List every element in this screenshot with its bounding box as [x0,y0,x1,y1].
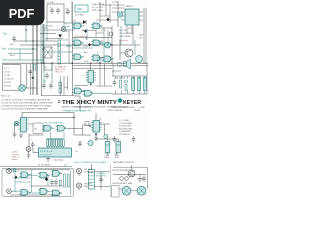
bottom right header [74,161,135,164]
net label Gnd [2,60,8,62]
gate U10C [51,190,63,196]
wire y174 right [113,174,146,176]
ground GND2 [13,134,17,137]
wire x43 dark [42,24,44,64]
label MUTE [66,45,72,48]
wire x37 dark [36,24,38,95]
jack circle mid [105,42,111,48]
svg-text:+1 100: +1 100 [4,75,11,77]
wire strip top [90,164,92,170]
wire y52 center [44,51,72,53]
wire x41 mid [41,62,43,96]
legend list right [119,120,133,136]
caps labels [104,157,120,159]
label teal above box [64,164,67,167]
capacitor C15 [50,179,54,186]
right row stubs top [116,76,145,79]
svg-text:U2: U2 [99,119,101,121]
label r small1 [73,21,77,23]
resistor bank bus [47,137,64,139]
label R6 [64,87,68,89]
wire y2 tr [112,1,118,3]
wire caps top [96,139,118,142]
wire x72 long [71,2,73,96]
wire y41 [14,40,57,42]
svg-text:R2 100K 1/4W: R2 100K 1/4W [119,128,132,130]
wire x26 [25,24,27,42]
wire y64 long [2,62,148,64]
box BT1 [33,123,43,134]
resistor R7 [34,65,36,71]
diode D5 below U8 [95,134,98,137]
note text top center [92,4,105,12]
net label Osc [3,34,8,36]
IC U6 left mid [18,118,28,133]
wire y135 [74,113,110,137]
svg-text:U1 14 PIN DIP: U1 14 PIN DIP [38,165,51,167]
diode D1 [83,20,86,24]
label col text [65,9,68,15]
wire x135 stub [134,40,136,55]
subtitle script teal [63,109,91,113]
gate U9B [38,172,50,178]
diode diamond a [84,29,87,33]
relay X box [44,47,52,58]
label pin8 [97,25,98,27]
wire gate outputs down [51,132,65,138]
ground GND1 [138,175,143,182]
capacitor C17 [29,69,33,76]
wire y96 right [75,96,80,111]
parts list heading [1,94,11,97]
wire x96 [95,29,97,38]
svg-text:+9: +9 [13,134,15,136]
bottom box wires row2 [11,191,38,193]
svg-text:1K lin pot: 1K lin pot [45,25,53,28]
svg-text:NOTE: ALL RESISTORS: NOTE: ALL RESISTORS [112,106,135,109]
wire x100 mid [96,64,113,86]
wire y118 mid [26,116,74,118]
bottom box wires row1 [11,171,38,175]
resistor R4 vertical [58,53,60,64]
label under c8 [75,151,78,153]
potentiometer R9 [61,27,66,32]
wire knobs [119,189,137,191]
resistor R22 [59,180,61,186]
svg-text:PARTS AND CONTROLS: PARTS AND CONTROLS [113,161,135,164]
bottom box bus mid [30,185,62,187]
bottom box wire y178 [12,177,31,179]
right component row bus bottom [112,93,147,95]
capacitor C16 [54,179,58,186]
capacitor C12 [31,142,35,149]
wire y27 right [131,25,133,34]
net label Vol [2,49,7,51]
resistor R21 [67,174,69,187]
svg-text:11: 11 [85,39,87,41]
jack circle top right [117,12,122,17]
jack input A [7,169,12,174]
resistor R3 vertical [58,40,60,51]
wire x146 top [145,8,147,64]
right text row [112,169,131,172]
label teal speed [66,26,70,28]
resistor R23 [14,169,16,172]
capacitor C6 [42,83,46,90]
bottom box vert x31 [31,170,33,192]
IC U5 top right [121,9,143,25]
svg-text:100uF: 100uF [104,157,110,159]
svg-text:TO +5 VDC: TO +5 VDC [92,7,104,9]
wire x64 stub [63,22,65,30]
red text mid [75,35,88,38]
label gate3 [74,37,76,40]
svg-text:dah in: dah in [10,55,15,57]
resistor R10 [113,80,117,87]
svg-text:C4 .05 IC2 555 R4 100K 1 KN: C4 .05 IC2 555 R4 100K 1 KNOB SET 1 WIRE… [1,109,49,111]
svg-text:board edge: board edge [54,160,63,162]
gate U7B [56,125,68,131]
capacitor C3 [66,9,70,16]
wire x44 [43,24,45,64]
svg-text:R1 10K: R1 10K [4,82,11,84]
knob K2 [137,186,146,195]
svg-text:OSC: OSC [77,8,82,11]
label left col2 [10,55,15,57]
wire x41 [40,24,42,64]
gate U1B [91,23,103,29]
label gate1 [82,30,87,32]
divider x110 [110,164,112,197]
connector J1 circle [19,85,26,92]
label gate2 [101,30,105,32]
wire q1 [120,40,125,60]
svg-text:C2 10uF TANT: C2 10uF TANT [119,122,133,125]
bottom box vert x15 [14,170,16,192]
wire y33 gates [99,27,112,29]
box R osc [44,63,52,70]
capacitor C2 [56,8,60,15]
wire y68 long [72,67,112,69]
label vol [65,31,68,33]
gate U4A [83,90,95,96]
svg-text:.01: .01 [75,151,78,153]
svg-text:C2 .05: C2 .05 [4,72,11,74]
wire y37 long [45,38,63,40]
svg-text:Q1 2N2222A: Q1 2N2222A [119,130,131,133]
wire y66 long [72,65,148,67]
svg-text:KEY OUT SIDETONE: KEY OUT SIDETONE [44,123,63,125]
wire y107 mid [74,106,91,108]
label U5 [126,6,133,8]
gate U2B [91,55,103,61]
wire y12 tr [112,11,118,13]
svg-text:device: device [12,159,17,161]
capacitor C19 [99,177,103,184]
svg-text:KEY UP: KEY UP [119,30,128,32]
wire x101 [100,172,102,191]
IC U8 right mid [91,121,102,133]
bottom box wire y182 [15,181,31,183]
subtitle right [108,110,141,112]
wire x67 mid [67,76,69,90]
wire y112 [22,113,74,118]
wire x20 short [19,49,21,60]
warning text red [55,67,67,74]
wire y95.5 [42,95,76,97]
label under bar [54,160,63,162]
resistor RN6 [58,139,60,146]
capacitor C18 [45,73,49,80]
label pot 1K [45,25,53,28]
wire x118 vertical [117,1,119,27]
right row stubs bottom [116,90,145,94]
wire y30 [44,29,96,32]
label 9V [13,134,15,136]
ground GND3 [19,134,23,138]
wire gates right [68,128,83,130]
svg-text:.1: .1 [30,140,32,142]
wire x60 mid [60,76,62,96]
wire x144 low [143,30,145,64]
wire x127 [126,25,128,34]
label pin11 [85,39,87,41]
svg-text:Tribute to the Altoids Tin: Tribute to the Altoids Tin [63,109,91,113]
diode under U3 [90,84,93,86]
junction dots [25,29,113,127]
wire u3 top [90,64,92,71]
ladder x100 [96,0,125,23]
gate U10A [19,190,31,196]
svg-text:.1 10K 1N4148: .1 10K 1N4148 [113,78,125,80]
svg-text:dah: dah [84,52,87,54]
gate U2C [102,56,114,62]
label gate4 [84,46,88,48]
title sub row [62,105,129,108]
parts list row4 [1,109,49,111]
wire y71 right [112,70,121,72]
wire x147 right edge [146,64,148,94]
label row vals [113,78,125,80]
circle S1b [125,177,129,181]
svg-text:3.579 MHz: 3.579 MHz [75,15,84,17]
trimmer VR1 [104,135,108,139]
svg-text:EDGE PINS: EDGE PINS [96,176,107,178]
gate U10B [38,189,50,195]
bottom box vert x70 [70,170,72,195]
transistor Q4 [128,170,135,177]
title star [118,98,123,103]
svg-text:PIN 7 GND: PIN 7 GND [92,10,103,12]
capacitor bank C22 [138,78,141,91]
svg-text:Spd: Spd [66,26,70,28]
svg-text:IC1c: IC1c [84,46,88,48]
wire y23 [64,22,83,24]
ground GND6 [27,155,31,158]
capacitor C4 [12,36,16,43]
diode diamond b [88,43,91,47]
bottom box bus bottom [10,194,60,196]
label U2 [99,119,101,121]
svg-text:4x: 4x [45,67,47,69]
gate U9C [51,171,63,177]
wire x112 [111,26,113,64]
gate U7A [42,125,54,131]
caps grounds [106,153,119,156]
right component row bus top [112,75,147,77]
diode D3 [45,177,48,181]
label top box [47,2,54,4]
wire x47 stub [46,22,48,41]
wire top box left [47,4,64,22]
svg-text:KD1JV: KD1JV [134,110,141,112]
resistor RN5 [56,139,58,146]
svg-text:.01 4.7K: .01 4.7K [61,40,69,42]
wire x133 [132,25,134,44]
resistor R11 [120,80,122,88]
svg-text:HOOK UP WIRING FOR OFF BOARD: HOOK UP WIRING FOR OFF BOARD [74,161,107,164]
gate U9A [19,172,31,178]
jack circle left of U6 [14,121,19,126]
resistor R12 [125,80,128,91]
svg-text:NE555: NE555 [126,6,133,8]
svg-text:PDF: PDF [9,6,35,21]
bottom box [2,168,74,196]
capacitor C11 electrolytic [116,142,121,153]
diamond D4 [106,18,109,22]
jack J4 [76,183,81,191]
transistor Q2 [136,56,143,63]
capacitor C9 teal [88,140,93,145]
wire y49 [8,48,37,50]
svg-text:C1 .1 DISC: C1 .1 DISC [119,120,130,122]
svg-text:X1 3.58: X1 3.58 [47,2,54,4]
wire x144 vertical [143,8,145,30]
wire strip right2 [94,186,110,188]
parts box [3,65,21,91]
capacitor C10 electrolytic [105,142,110,153]
wire to connector [33,148,39,153]
wire x113 mid edge [112,64,114,76]
parts box text [4,68,14,88]
note right top [112,106,145,109]
wire y61 [97,59,104,61]
resistor RN7 [60,139,62,146]
label strip [96,172,107,178]
wire x33 dark [32,24,34,95]
resistor RN3 [51,139,53,146]
svg-text:IC1b: IC1b [101,30,105,32]
small rect comp [32,77,34,79]
wire y51 [100,43,112,45]
gate U1D [91,40,103,46]
wire y48 gates [72,47,93,49]
svg-text:C2 10uF C6 .01 R2 2.2K 2 PH: C2 10uF C6 .01 R2 2.2K 2 PHONE JACK 1 SP… [1,102,53,105]
wire x121 stub [120,26,122,45]
svg-text:REV 01 10/7/02: REV 01 10/7/02 [108,110,123,112]
gate U2A [72,54,84,60]
IC U3 center [86,71,97,83]
bottom box vert x48 [47,174,49,186]
svg-text:dit in: dit in [10,43,14,46]
svg-text:R1 10K 1/4W: R1 10K 1/4W [119,126,131,128]
transistor Q1 [125,49,133,57]
svg-text:C1 .1uF C5 .05 R1 10K 1 CKT: C1 .1uF C5 .05 R1 10K 1 CKT BOARD 1 ALTO… [1,99,50,102]
diode D2 [58,35,62,38]
label teal right [119,39,129,42]
wire y92 [74,85,112,93]
parts list row1 [1,99,50,102]
wire x30 mid [29,64,31,95]
oscillator box OSC [75,5,88,12]
page background [0,0,149,198]
svg-text:+1 100 uF: +1 100 uF [4,79,14,81]
wire y45 long [20,44,140,46]
gate U1C [72,40,84,46]
label gate5 [84,52,87,54]
ground GND5 [94,136,98,141]
capacitor C13 [113,136,117,143]
label J3 [84,168,94,174]
parts list row2 [1,102,53,105]
label right row2 [112,182,133,185]
box bottom left partial [112,186,120,198]
svg-text:THE XHICY MINTY: THE XHICY MINTY [62,100,118,106]
wire x29 down [28,134,30,147]
resistor R6 [59,82,61,93]
jack input B [7,189,12,194]
capacitor C8 [78,141,82,148]
label tone [43,80,47,83]
svg-text:555: 555 [128,28,131,30]
box left of U8 [85,122,89,126]
label r small2 [99,41,104,43]
svg-text:U1 74HC00: U1 74HC00 [119,134,130,136]
capacitor bank C21 [132,78,135,91]
svg-text:R2 47K: R2 47K [4,86,11,88]
svg-text:7805 OK: 7805 OK [55,72,63,74]
capacitor C1 [50,8,54,15]
wire x147 bottom right [146,167,148,189]
wire q4 top [131,166,133,171]
wire x27 mid [26,64,28,88]
wire IC to box [29,123,34,125]
title THE XHICY MINTY KEYER [62,100,141,106]
wire x64 mid [63,76,65,96]
wire y60 [8,59,44,61]
label left col1 [10,43,14,46]
resistor RN1 [47,139,49,146]
wire u8 top [95,113,97,121]
capacitor bank C23 [144,78,147,91]
label J4 [84,184,92,189]
edge connector J2 [39,148,72,157]
svg-text:Gash: Gash [2,60,8,62]
svg-text:1 2 3 4 5 6 7 8: 1 2 3 4 5 6 7 8 [40,155,52,157]
label c12 [30,140,32,142]
label row y62 [96,62,101,64]
label C1 value [49,7,52,9]
note text red bottom left [12,152,19,162]
gate U2D [73,88,85,94]
title prefix marks [58,101,61,103]
resistor R20 [64,174,66,187]
wire y37 gates long [72,37,112,39]
wire x69 [68,30,70,63]
connector circle small [109,32,113,36]
resistor bank stubs [47,146,63,148]
speaker SP1 [117,59,130,69]
